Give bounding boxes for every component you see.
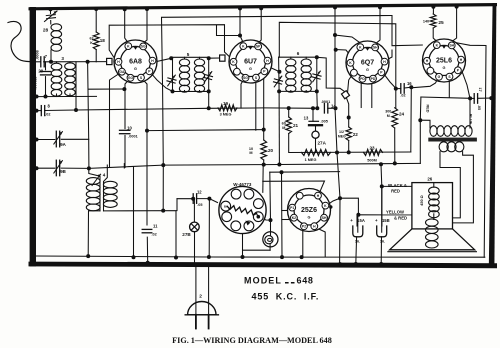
svg-text:16.: 16. <box>380 240 385 244</box>
svg-text:21: 21 <box>293 123 299 128</box>
svg-text:1 MEG: 1 MEG <box>305 158 317 162</box>
svg-text:MEG: MEG <box>338 135 346 139</box>
svg-text:SG: SG <box>243 76 248 80</box>
svg-text:12: 12 <box>197 190 202 195</box>
svg-text:60: 60 <box>282 122 286 126</box>
svg-text:2: 2 <box>199 293 202 299</box>
svg-text:FIG. 1—WIRING DIAGRAM—MODEL 64: FIG. 1—WIRING DIAGRAM—MODEL 648 <box>172 336 332 345</box>
svg-text:K2: K2 <box>292 216 296 220</box>
svg-text:.0008: .0008 <box>35 50 39 60</box>
svg-text:10: 10 <box>127 125 132 130</box>
svg-text:P2: P2 <box>302 225 306 229</box>
svg-text:PD: PD <box>371 77 376 81</box>
svg-text:+: + <box>375 218 378 223</box>
svg-text:18: 18 <box>100 38 106 43</box>
svg-text:24: 24 <box>399 112 405 117</box>
svg-text:26: 26 <box>427 177 432 182</box>
svg-text:17: 17 <box>478 87 482 91</box>
svg-text:14: 14 <box>331 103 336 108</box>
svg-text:GO: GO <box>128 76 134 80</box>
svg-text:1/2: 1/2 <box>339 130 344 134</box>
svg-text:MODEL: MODEL <box>244 276 282 286</box>
svg-text:BLUE: BLUE <box>468 114 472 125</box>
svg-text:G: G <box>134 67 137 71</box>
svg-text:500M: 500M <box>367 159 377 163</box>
svg-text:25L6: 25L6 <box>436 58 452 65</box>
svg-text:19: 19 <box>223 101 229 106</box>
svg-text:K: K <box>90 41 93 45</box>
svg-text:RED: RED <box>391 188 400 193</box>
svg-text:4: 4 <box>103 173 106 178</box>
svg-text:3: 3 <box>61 56 64 61</box>
svg-text:140: 140 <box>423 20 429 24</box>
svg-text:+: + <box>350 218 353 223</box>
svg-text:15A: 15A <box>357 218 365 223</box>
svg-text:25Z6: 25Z6 <box>301 207 317 214</box>
svg-text:.05: .05 <box>197 203 202 207</box>
svg-text:SP: SP <box>256 45 261 49</box>
svg-text:6A8: 6A8 <box>129 59 142 66</box>
svg-text:5: 5 <box>187 52 190 57</box>
svg-text:.0001: .0001 <box>321 100 331 104</box>
svg-text:.005: .005 <box>321 120 328 124</box>
svg-text:SH: SH <box>449 44 454 48</box>
svg-text:29: 29 <box>38 68 43 73</box>
svg-text:G: G <box>438 75 441 79</box>
svg-text:M: M <box>282 126 285 130</box>
svg-text:G: G <box>249 67 252 71</box>
svg-text:450 Ω: 450 Ω <box>420 195 424 205</box>
svg-text:M: M <box>387 114 390 118</box>
svg-text:25: 25 <box>438 20 444 26</box>
svg-text:M: M <box>249 151 252 155</box>
svg-text:20: 20 <box>268 148 274 153</box>
svg-text:16: 16 <box>407 81 412 86</box>
svg-text:13: 13 <box>304 116 309 121</box>
svg-text:300: 300 <box>385 110 391 114</box>
svg-text:.05: .05 <box>477 105 481 110</box>
svg-text:& RED: & RED <box>394 215 407 220</box>
svg-text:27A: 27A <box>318 141 327 146</box>
svg-text:22: 22 <box>353 132 359 137</box>
svg-text:RED: RED <box>426 104 430 112</box>
svg-text:.0001: .0001 <box>128 135 138 139</box>
svg-text:BLACK &: BLACK & <box>388 183 407 188</box>
svg-text:10: 10 <box>249 147 253 151</box>
svg-text:15B: 15B <box>382 218 390 223</box>
svg-text:SG: SG <box>141 45 146 49</box>
svg-text:.02: .02 <box>400 94 405 98</box>
svg-text:G: G <box>308 216 311 220</box>
svg-text:G: G <box>443 66 446 70</box>
svg-text:648: 648 <box>297 276 314 286</box>
svg-text:6: 6 <box>297 51 300 56</box>
svg-text:6U7: 6U7 <box>244 59 257 66</box>
svg-text:9A: 9A <box>60 142 66 147</box>
svg-text:.02: .02 <box>152 233 157 237</box>
svg-text:23: 23 <box>369 146 375 151</box>
svg-text:27B: 27B <box>182 232 191 237</box>
svg-text:G: G <box>366 68 369 72</box>
svg-text:.000025: .000025 <box>33 77 37 90</box>
svg-text:16.: 16. <box>355 240 360 244</box>
svg-text:GA: GA <box>119 70 125 74</box>
svg-text:YELLOW: YELLOW <box>386 210 404 215</box>
svg-text:PD: PD <box>360 77 365 81</box>
svg-text:455 K.C. I.F.: 455 K.C. I.F. <box>252 291 320 301</box>
svg-text:W-46773: W-46773 <box>233 182 252 187</box>
svg-text:SH: SH <box>322 216 327 220</box>
svg-text:SH: SH <box>373 46 378 50</box>
svg-text:28: 28 <box>43 28 49 34</box>
svg-text:.02: .02 <box>45 113 50 117</box>
svg-text:P1: P1 <box>290 206 294 210</box>
svg-text:63: 63 <box>90 37 94 41</box>
svg-text:9B: 9B <box>60 169 66 174</box>
svg-text:6Q7: 6Q7 <box>361 60 374 67</box>
svg-text:11: 11 <box>153 223 158 228</box>
svg-text:3 MEG: 3 MEG <box>220 112 232 116</box>
